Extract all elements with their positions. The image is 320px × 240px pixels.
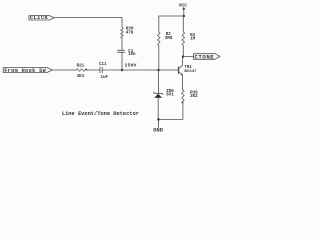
svg-text:1M: 1M [190,38,196,42]
node junction R2/ZD6 [157,69,160,72]
wire R30 to C1 [121,38,123,50]
transistor TR1 [179,65,198,75]
capacitor C11 [99,63,109,80]
wire TR1 emitter to R39 [182,75,184,90]
node junction CTONE [182,55,185,58]
svg-text:250V: 250V [125,62,137,68]
zener diode ZD6 [154,70,175,119]
resistor R39 [182,90,199,104]
ground [153,119,163,133]
svg-text:10n: 10n [128,53,136,57]
wire to CTONE flag [183,56,194,58]
power VCC [179,3,188,16]
svg-text:GND: GND [153,127,163,133]
wire R2 top to VCC junction [159,15,184,17]
svg-text:3M8: 3M8 [165,37,173,41]
svg-text:From Hook SW: From Hook SW [4,68,46,74]
flag CTONE [194,53,221,60]
wire R3 to TR1 collector [182,57,184,66]
svg-text:CTONE: CTONE [194,53,214,60]
resistor R21 [76,64,87,79]
resistor R2 [158,16,173,70]
node junction ground [157,118,160,121]
svg-text:Line Event/Tone Detector: Line Event/Tone Detector [62,110,139,117]
svg-text:2K2: 2K2 [190,95,198,99]
svg-text:VCC: VCC [179,3,188,9]
svg-text:47K: 47K [126,31,134,35]
capacitor C1 [118,50,137,68]
svg-text:CLICK: CLICK [30,15,49,21]
wire CLICK to R30 [55,17,123,19]
wire R21 to C11 [85,69,100,71]
wire node line C11 to TR1 base [102,69,178,71]
flag CLICK [29,15,55,21]
node junction VCC [183,15,186,18]
resistor R30 [121,18,134,39]
svg-text:R21: R21 [77,64,85,68]
svg-text:6V1: 6V1 [166,94,174,98]
svg-text:1uF: 1uF [101,76,109,80]
wire flag to R21 [53,69,77,71]
svg-text:3K3: 3K3 [77,75,85,79]
svg-text:BC547: BC547 [184,70,197,74]
svg-text:C11: C11 [99,63,107,67]
wire R39 to ground rail [158,102,183,120]
resistor R3 [182,16,196,57]
node junction C1/line [121,69,124,72]
wire C1 to node line [121,52,123,70]
flag From Hook SW [3,68,52,75]
